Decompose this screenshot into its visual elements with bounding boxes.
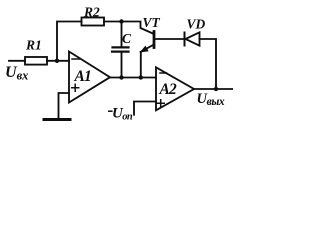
wire R1 to A1 inverting input — [47, 60, 69, 62]
svg-text:Uвых: Uвых — [197, 91, 225, 108]
diode VD triangle — [186, 32, 200, 45]
wire A1 output to A2 inverting input — [110, 77, 156, 79]
wire -Uop to A2 noninverting input — [134, 102, 156, 115]
ground — [44, 118, 70, 121]
op-amp A1 minus sign — [72, 58, 80, 60]
wire A1 noninverting input to ground — [59, 93, 70, 119]
resistor R2 — [82, 18, 105, 26]
transistor VT emitter with arrow — [141, 45, 154, 52]
wire top rail R2 to node B — [104, 21, 122, 23]
svg-text:VT: VT — [143, 15, 161, 30]
svg-text:Uвх: Uвх — [5, 64, 28, 83]
wire transistor base to diode — [155, 38, 185, 40]
capacitor C lead upper — [121, 22, 123, 48]
op-amp A2 plus sign — [157, 100, 164, 107]
node junction dot capacitor at A1 output — [119, 75, 123, 79]
wire input Uvx to R1 — [9, 60, 25, 62]
wire emitter down to output wire of A1 — [140, 52, 142, 78]
svg-text:Uоп: Uоп — [112, 106, 133, 123]
wire node B to transistor collector — [122, 22, 155, 35]
svg-text:R2: R2 — [83, 4, 100, 19]
resistor R1 — [25, 57, 47, 65]
op-amp A1 plus sign — [72, 84, 79, 91]
wire diode anode to output node — [200, 39, 217, 89]
capacitor C — [112, 47, 129, 51]
node B junction dot top rail — [119, 19, 123, 23]
diode VD cathode bar — [184, 33, 186, 46]
node junction dot output Uvyx — [214, 87, 218, 91]
transistor VT emitter arrowhead — [141, 46, 148, 52]
svg-text:VD: VD — [187, 17, 206, 32]
wire feedback vertical from node A up to top rail — [57, 22, 82, 61]
op-amp A2 minus sign — [160, 72, 167, 74]
svg-text:C: C — [122, 31, 132, 46]
op-amp A1 — [69, 52, 110, 103]
transistor VT base bar — [153, 32, 156, 48]
node A junction dot at A1 inverting input — [55, 59, 59, 63]
capacitor C lead lower — [121, 52, 123, 78]
label -Uop reference voltage minus sign — [108, 110, 113, 112]
node junction dot emitter at A1 output — [139, 75, 143, 79]
wire A2 output Uvyx — [194, 88, 233, 90]
svg-text:A1: A1 — [74, 68, 92, 85]
svg-text:A2: A2 — [159, 81, 178, 98]
svg-text:R1: R1 — [25, 38, 42, 53]
op-amp A2 — [156, 67, 194, 110]
